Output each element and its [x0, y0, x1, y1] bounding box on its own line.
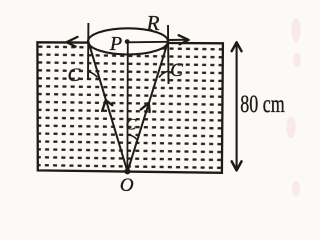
arrowhead on left ray	[102, 100, 112, 111]
refracted ray right (short line above surface)	[168, 39, 187, 41]
svg-text:C: C	[68, 65, 81, 86]
svg-text:80 cm: 80 cm	[240, 91, 285, 118]
svg-text:P: P	[109, 33, 122, 55]
angle arc left C	[88, 72, 97, 78]
svg-text:O: O	[120, 175, 134, 196]
svg-text:R: R	[146, 11, 160, 35]
water hatch fill	[38, 43, 222, 172]
faint pink scan artifacts right margin	[287, 18, 302, 197]
angle arc right C	[159, 71, 168, 78]
dimension arrow 80cm	[236, 43, 238, 170]
tank outline	[37, 42, 223, 173]
radius line P dot to rim	[127, 41, 167, 44]
source point O dot	[124, 168, 130, 174]
svg-text:C: C	[126, 117, 137, 134]
angle arc at O	[128, 135, 137, 140]
faint pink artifact inside ellipse	[110, 43, 144, 48]
incident ray left (O to surface)	[88, 42, 127, 172]
incident ray right (O to surface)	[128, 42, 168, 172]
right normal	[167, 25, 170, 84]
refracted ray right arrowhead	[179, 35, 189, 44]
vertical line P to O	[126, 42, 128, 171]
point P dot	[125, 39, 130, 44]
arrowhead on right ray	[141, 103, 150, 112]
left normal	[87, 23, 89, 80]
svg-text:C: C	[170, 60, 183, 81]
circle of light (ellipse)	[88, 28, 168, 54]
refracted ray left arrowhead	[67, 37, 78, 47]
